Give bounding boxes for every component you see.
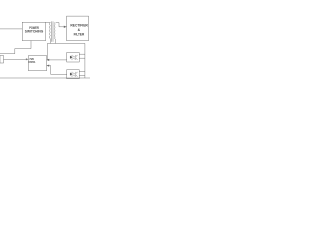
arrowhead feedback lower into PWM	[47, 64, 50, 66]
wire feedback branch vertical	[46, 43, 48, 59]
block power switching	[22, 22, 45, 40]
arrowhead into rectifier	[64, 26, 67, 28]
transformer T1 core	[52, 21, 53, 41]
block PWM control	[28, 56, 46, 71]
transformer T1 secondary lead top	[56, 23, 59, 27]
background	[0, 0, 90, 90]
transformer T1 primary winding	[48, 22, 51, 38]
arrowhead into PWM from left	[26, 58, 28, 60]
svg-text:SWITCHING: SWITCHING	[25, 29, 44, 33]
wire sense input to PWM	[3, 58, 28, 60]
transformer T1 secondary lead bottom	[55, 39, 57, 44]
wire AC input	[0, 28, 22, 30]
svg-text:CONTROL: CONTROL	[28, 60, 35, 64]
arrowhead feedback upper into PWM	[47, 59, 50, 61]
block optocoupler lower	[67, 70, 79, 79]
wire feedback upper into PWM	[47, 59, 67, 61]
wire opto upper right pins	[79, 54, 85, 58]
wire gate drive staircase	[0, 41, 31, 54]
block rectifier & filter	[67, 16, 89, 41]
wire output rail vertical	[84, 43, 86, 78]
wire bottom return rail	[0, 77, 90, 79]
block input terminal (cropped at left edge)	[0, 55, 3, 62]
optocoupler U2 symbol	[70, 55, 77, 60]
transformer T1 primary lead bottom	[49, 39, 51, 44]
wire secondary return under box	[47, 42, 84, 44]
transformer T1 secondary winding	[53, 22, 56, 38]
wire secondary to rectifier	[59, 26, 66, 28]
wire feedback lower into PWM	[47, 66, 67, 75]
svg-text:FILTER: FILTER	[74, 33, 85, 37]
wire opto lower right pins	[79, 71, 85, 75]
optocoupler U3 symbol	[70, 72, 77, 77]
transformer T1 primary lead top	[46, 21, 50, 23]
block optocoupler upper	[67, 52, 79, 61]
